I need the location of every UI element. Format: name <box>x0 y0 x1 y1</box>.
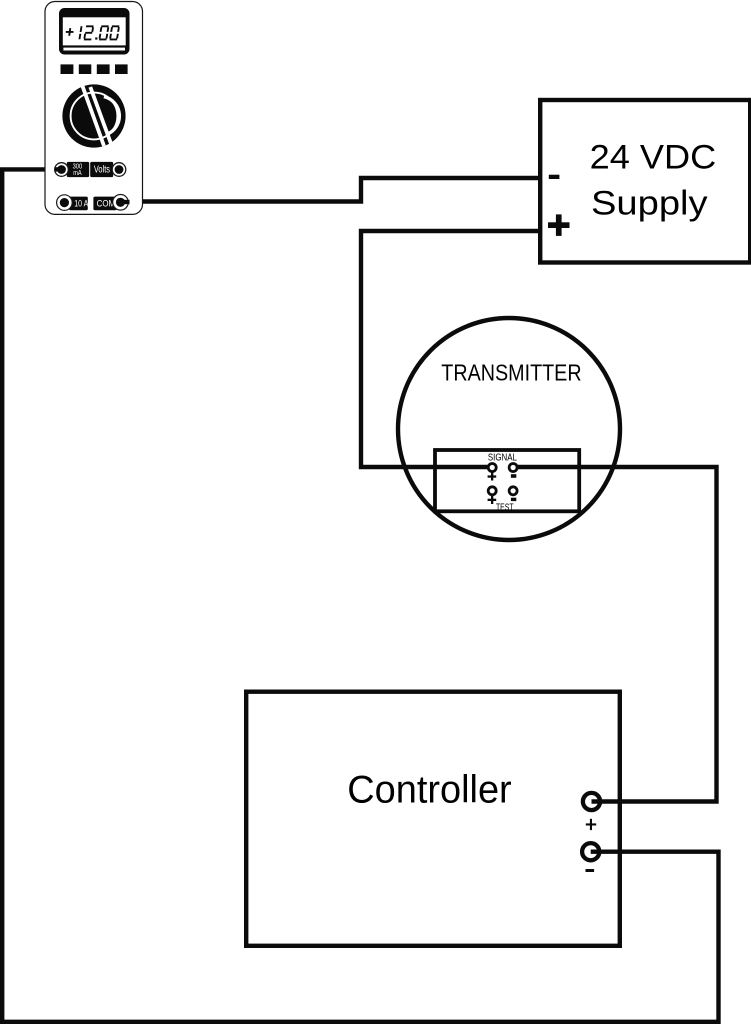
digit 0 <box>110 26 119 39</box>
svg-text:TRANSMITTER: TRANSMITTER <box>441 359 581 385</box>
decimal point <box>95 37 97 39</box>
multimeter LCD <box>63 17 126 45</box>
wire stub from 300mA jack dot <box>55 167 62 171</box>
multimeter jack COM <box>113 195 129 211</box>
multimeter body <box>45 2 143 215</box>
multimeter dial <box>62 84 125 147</box>
multimeter jack 10A <box>57 195 73 211</box>
svg-text:TEST: TEST <box>496 502 514 513</box>
wire: multimeter mA jack -> left edge -> bottom -> up right side -> controller minus <box>2 169 718 1021</box>
svg-text:24 VDC: 24 VDC <box>590 138 717 176</box>
plus sign of reading <box>66 28 74 36</box>
multimeter jack Volts <box>112 163 126 177</box>
wire stub from COM jack dot <box>121 200 130 204</box>
multimeter display frame <box>59 8 130 55</box>
supply minus mark <box>549 175 560 179</box>
digit 1 <box>79 26 81 39</box>
transmitter test + terminal <box>488 487 496 495</box>
label box 300 mA <box>67 162 89 177</box>
transmitter circle <box>398 318 620 540</box>
controller terminal - (ring) <box>582 843 599 860</box>
wire: transmitter signal minus -> right side -> down -> controller plus <box>516 467 717 802</box>
transmitter signal - terminal <box>509 464 517 472</box>
transmitter test - terminal <box>509 487 517 495</box>
controller terminal + (ring) <box>583 793 600 810</box>
svg-text:10 A: 10 A <box>74 199 89 209</box>
svg-text:SIGNAL: SIGNAL <box>488 453 517 464</box>
controller plus mark <box>586 823 596 825</box>
wire: multimeter COM jack -> jog up -> supply minus <box>121 178 540 202</box>
digit 0 <box>99 26 108 39</box>
transmitter terminal block <box>435 450 579 511</box>
24 VDC supply box <box>540 100 750 263</box>
svg-text:Controller: Controller <box>347 769 511 812</box>
svg-text:Volts: Volts <box>94 165 110 176</box>
multimeter mode squares <box>61 64 74 74</box>
wire: supply plus -> down -> transmitter signal plus <box>361 231 540 467</box>
controller box <box>246 692 620 946</box>
svg-text:mA: mA <box>73 170 82 177</box>
label box 10 A <box>69 197 89 211</box>
label box Volts <box>90 162 113 177</box>
controller minus mark <box>586 869 595 872</box>
svg-text:Supply: Supply <box>591 185 708 223</box>
transmitter signal + terminal <box>488 464 496 472</box>
label box COM <box>93 197 116 211</box>
LCD reading +12.00 <box>66 26 119 39</box>
supply plus mark <box>548 222 570 228</box>
multimeter jack 300mA <box>55 163 69 177</box>
digit 2 <box>84 26 93 39</box>
